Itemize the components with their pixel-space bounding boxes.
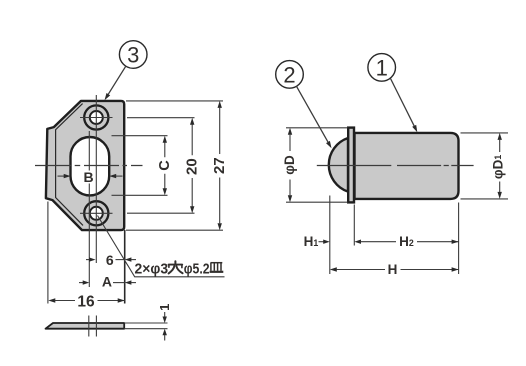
dimension 20 <box>127 118 201 214</box>
dimension H <box>330 262 459 277</box>
dimension H2 <box>354 234 458 249</box>
dimension 27 <box>126 101 228 230</box>
plate right edge extension line <box>124 230 126 304</box>
callout circle 2 <box>276 61 332 149</box>
dimension B <box>58 169 123 185</box>
dimension C <box>112 136 174 196</box>
holes vertical centerline x=96.3 <box>95 95 97 263</box>
dimension 1 thickness <box>157 304 172 341</box>
svg-text:φD: φD <box>282 155 297 175</box>
dimension phiD <box>282 128 347 202</box>
H1 H2 extension lines <box>330 196 459 275</box>
bottom thin plate view <box>46 316 168 337</box>
left view: flange plate face <box>46 101 124 230</box>
plate left edge band inner line <box>56 104 83 226</box>
dimension 16 <box>48 202 125 311</box>
stadium slot B <box>71 137 110 195</box>
svg-text:1: 1 <box>157 304 172 311</box>
horizontal centerline left view <box>35 165 143 167</box>
svg-text:20: 20 <box>184 158 201 175</box>
leader 2xphi3 <box>98 216 225 278</box>
svg-text:A: A <box>102 274 112 290</box>
svg-text:1: 1 <box>376 56 388 81</box>
kanji ana (hole) <box>169 261 183 273</box>
svg-text:2×φ3: 2×φ3 <box>135 261 169 278</box>
countersunk hole top <box>80 105 113 129</box>
svg-text:H: H <box>388 262 398 277</box>
dimension 6 <box>86 252 136 268</box>
svg-text:3: 3 <box>127 43 139 68</box>
right view: dome ball <box>329 138 348 192</box>
svg-text:φ5.2: φ5.2 <box>184 261 210 278</box>
kanji sara (countersink dish) <box>210 263 224 272</box>
right view: centerline <box>317 165 474 167</box>
dimension H1 <box>304 234 330 249</box>
right view: plunger body <box>355 133 459 199</box>
svg-text:2: 2 <box>283 63 295 88</box>
countersunk hole bottom <box>80 201 113 225</box>
svg-text:27: 27 <box>211 157 228 174</box>
callout circle 3 <box>105 41 148 101</box>
svg-text:B: B <box>84 169 94 185</box>
svg-text:C: C <box>157 160 173 171</box>
slot vertical centerline x=89.3 <box>88 131 90 287</box>
dimension phiD1 <box>461 133 509 199</box>
svg-text:16: 16 <box>77 293 95 310</box>
dimension A <box>79 274 136 290</box>
right view: flange ring <box>348 128 354 203</box>
callout circle 1 <box>368 54 417 133</box>
svg-text:6: 6 <box>106 252 114 268</box>
